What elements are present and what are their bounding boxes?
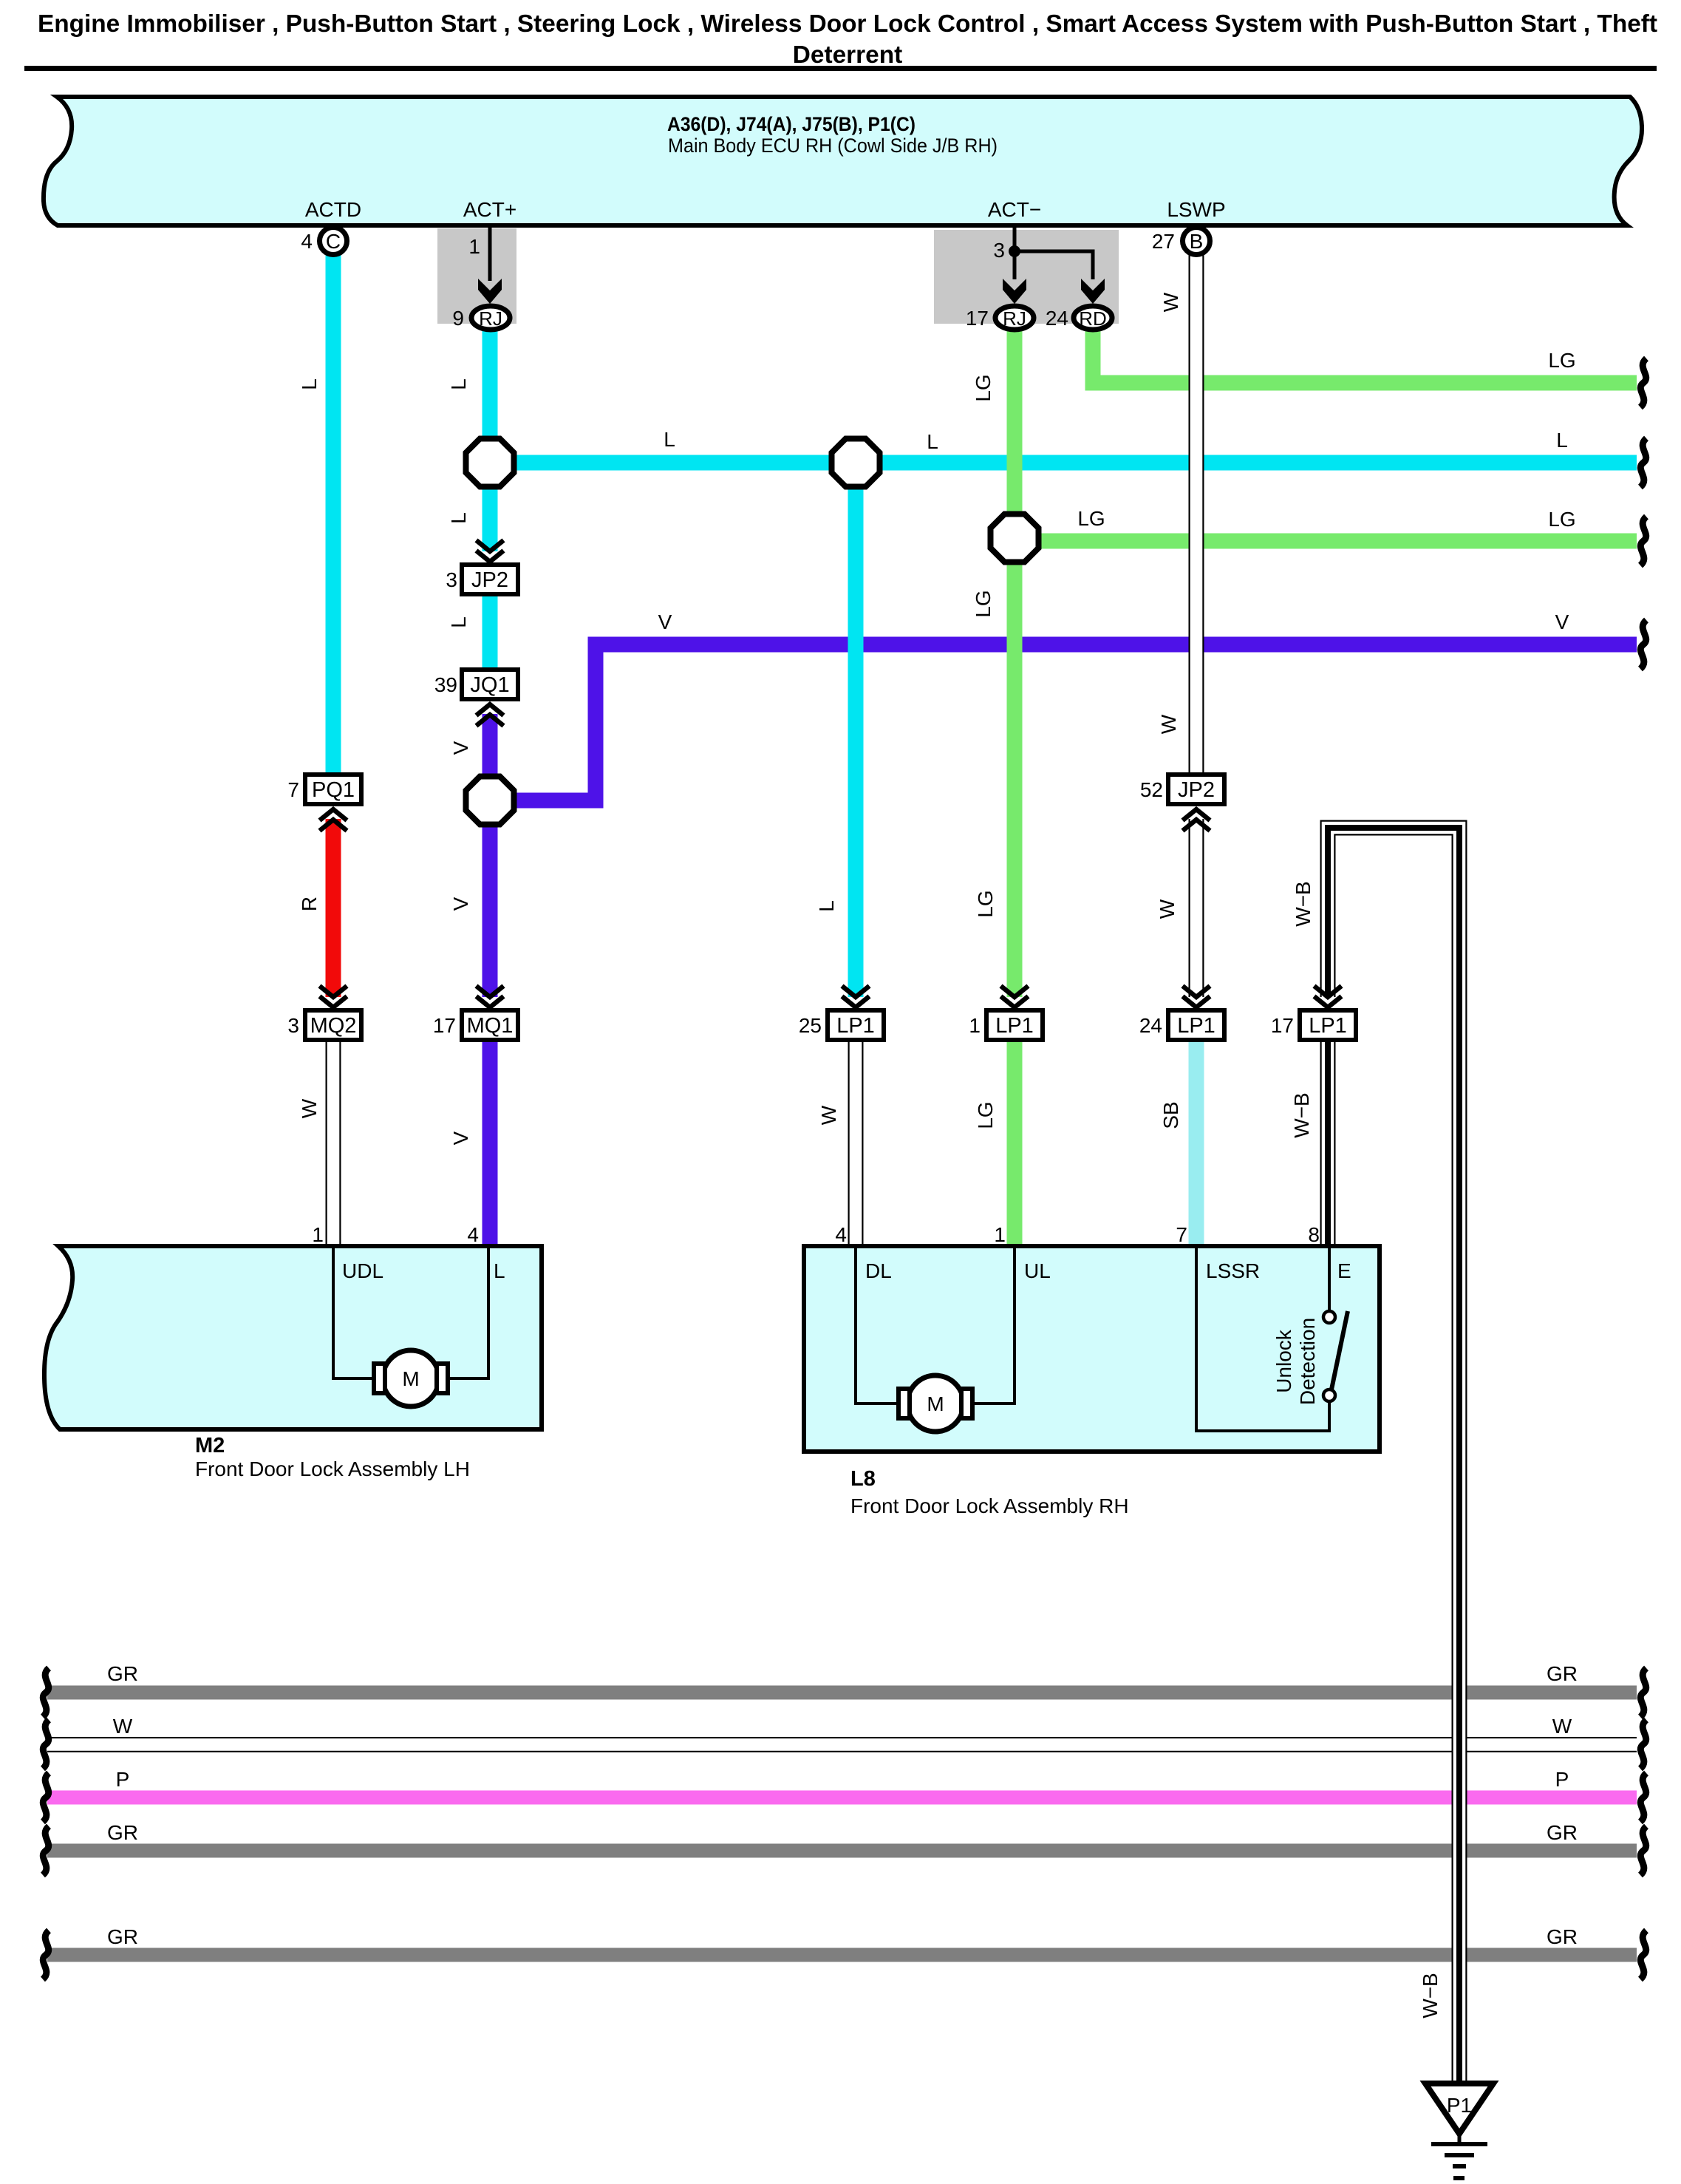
- ECU connector box A36 J74 J75 P1: [44, 97, 1642, 225]
- connector LP1 pin 17: [1271, 1010, 1356, 1040]
- svg-text:8: 8: [1308, 1223, 1320, 1246]
- svg-text:Unlock: Unlock: [1272, 1329, 1295, 1393]
- pin 4 connector C circle: [301, 228, 347, 255]
- break symbol left GR1: [43, 1668, 49, 1717]
- break symbol right W: [1640, 1720, 1646, 1769]
- wire W white vertical JP2-52 to LP1-24: [1189, 819, 1204, 997]
- connector LP1 pin 24: [1139, 1010, 1224, 1040]
- svg-text:W: W: [1552, 1715, 1572, 1738]
- wire LG vertical RJ17 to splice J3: [1007, 330, 1023, 541]
- svg-text:MQ1: MQ1: [467, 1014, 514, 1038]
- connector oval RD pin 24: [1046, 306, 1112, 330]
- svg-text:1: 1: [468, 235, 480, 258]
- svg-text:W: W: [1156, 899, 1179, 919]
- wire LG vertical splice J3 to LP1-1: [1007, 541, 1023, 997]
- svg-text:LG: LG: [1548, 349, 1575, 372]
- svg-text:V: V: [449, 897, 472, 911]
- svg-text:M2: M2: [195, 1434, 225, 1457]
- svg-text:W−B: W−B: [1290, 1092, 1313, 1137]
- svg-text:RJ: RJ: [1003, 307, 1026, 330]
- svg-text:1: 1: [994, 1223, 1006, 1246]
- svg-text:P1: P1: [1447, 2094, 1472, 2117]
- connector oval RJ pin 9: [452, 306, 510, 330]
- svg-text:LP1: LP1: [1177, 1014, 1215, 1038]
- splice J1 octagon: [466, 439, 514, 487]
- svg-text:L8: L8: [850, 1467, 876, 1491]
- title: [38, 10, 1657, 69]
- svg-text:ACTD: ACTD: [305, 198, 361, 221]
- M2 internal wiring: [333, 1248, 488, 1378]
- wire GR horizontal 2: [47, 1844, 1637, 1858]
- svg-text:P: P: [116, 1768, 130, 1791]
- wire L horizontal from splice J1 to right edge: [490, 455, 1637, 471]
- wire W-B hairpin from LP1-17 up over and down to ground: [1328, 828, 1459, 2083]
- junction connector PQ1 pin 7: [287, 775, 361, 804]
- unlock detection switch: [1272, 1248, 1348, 1405]
- wire L vertical splice J1 to JP2: [483, 463, 498, 551]
- svg-text:UL: UL: [1024, 1259, 1051, 1282]
- break symbol right L: [1640, 438, 1646, 487]
- inline connector chevron above LP1-1: [1001, 986, 1029, 1007]
- svg-text:1: 1: [312, 1223, 324, 1246]
- svg-text:24: 24: [1046, 307, 1068, 330]
- wire V vertical splice J4 to MQ1: [483, 800, 498, 997]
- svg-text:L: L: [494, 1259, 505, 1282]
- break symbol right GR2: [1640, 1826, 1646, 1875]
- L8 motor wiring: [856, 1248, 1015, 1404]
- wire L vertical JP2 to JQ1: [483, 594, 498, 670]
- svg-text:4: 4: [835, 1223, 847, 1246]
- break symbol left GR2: [43, 1826, 49, 1875]
- svg-text:UDL: UDL: [342, 1259, 383, 1282]
- svg-text:ACT+: ACT+: [463, 198, 516, 221]
- svg-text:LG: LG: [974, 890, 997, 917]
- M2 pin 4 L: [467, 1223, 505, 1282]
- svg-text:A36(D), J74(A), J75(B), P1(C): A36(D), J74(A), J75(B), P1(C): [667, 113, 915, 135]
- junction connector JP2 pin 52: [1140, 775, 1224, 804]
- inline connector chevron above MQ1: [477, 986, 504, 1007]
- break symbol right GR1: [1640, 1668, 1646, 1717]
- svg-text:W: W: [113, 1715, 133, 1738]
- svg-text:L: L: [927, 430, 938, 453]
- svg-text:JQ1: JQ1: [470, 673, 509, 697]
- inline connector chevron above LP1-24: [1183, 986, 1210, 1007]
- L8 pin 8 E: [1308, 1223, 1351, 1282]
- svg-text:GR: GR: [107, 1925, 138, 1948]
- wire W-B lower part over bottom wires: [1452, 1656, 1467, 2083]
- svg-text:L: L: [815, 900, 838, 912]
- svg-text:R: R: [298, 897, 321, 911]
- arrow from ECU pin 1 ACT+: [468, 228, 502, 304]
- svg-text:GR: GR: [1547, 1662, 1578, 1685]
- connector MQ2 pin 3: [287, 1010, 361, 1040]
- inline connector chevron above LP1-25: [842, 986, 870, 1007]
- svg-text:L: L: [447, 616, 470, 628]
- svg-text:Deterrent: Deterrent: [793, 41, 902, 69]
- svg-text:17: 17: [433, 1014, 456, 1037]
- svg-text:W−B: W−B: [1419, 1973, 1442, 2018]
- wire W horizontal: [47, 1737, 1637, 1752]
- M2 pin 1 UDL: [312, 1223, 383, 1282]
- wire LG from RD24 to right edge: [1093, 330, 1637, 383]
- wire V from splice J4 to right edge: [490, 644, 1637, 800]
- break symbol left W: [43, 1720, 49, 1769]
- wire W white vertical B27 to JP2-52: [1189, 254, 1204, 775]
- arrow to RJ17: [1003, 251, 1026, 304]
- svg-text:L: L: [447, 378, 470, 390]
- L8 pin 4 DL: [835, 1223, 891, 1282]
- break symbol right GR3: [1640, 1930, 1646, 1979]
- wire LG horizontal from splice J3 to right edge: [1015, 534, 1637, 549]
- svg-text:LP1: LP1: [836, 1014, 875, 1038]
- wire W-B vertical LP1-17 to L8 pin 8: [1320, 1039, 1336, 1248]
- svg-text:GR: GR: [1547, 1821, 1578, 1844]
- svg-text:LP1: LP1: [1309, 1014, 1347, 1038]
- ground P1: [1425, 2083, 1493, 2180]
- break symbol left GR3: [43, 1930, 49, 1979]
- svg-text:39: 39: [434, 673, 457, 696]
- svg-text:MQ2: MQ2: [310, 1014, 357, 1038]
- svg-text:4: 4: [467, 1223, 479, 1246]
- motor M in L8: [899, 1375, 972, 1432]
- wire P horizontal: [47, 1791, 1637, 1805]
- svg-text:27: 27: [1152, 230, 1175, 253]
- svg-text:W: W: [1157, 714, 1180, 734]
- svg-text:GR: GR: [1547, 1925, 1578, 1948]
- connector MQ1 pin 17: [433, 1010, 518, 1040]
- inline connector chevron below PQ1 pointing up: [320, 809, 347, 831]
- svg-text:L: L: [664, 428, 675, 451]
- svg-text:RD: RD: [1079, 307, 1107, 330]
- title rule: [24, 66, 1657, 71]
- wire R red vertical PQ1 to MQ2: [326, 819, 341, 997]
- wire L cyan vertical splice J2 to LP1-25: [848, 463, 864, 997]
- svg-text:3: 3: [446, 568, 457, 591]
- svg-text:L: L: [447, 512, 470, 524]
- svg-text:LG: LG: [972, 590, 995, 617]
- shield gray box at ACT-: [934, 230, 1119, 324]
- wire ACTD L cyan vertical: [326, 254, 341, 776]
- svg-text:LG: LG: [1548, 508, 1575, 531]
- wire V vertical MQ1 to M2 pin 4: [483, 1039, 498, 1248]
- svg-text:ACT−: ACT−: [988, 198, 1041, 221]
- svg-text:DL: DL: [865, 1259, 892, 1282]
- svg-text:W: W: [298, 1098, 321, 1118]
- svg-text:Detection: Detection: [1296, 1318, 1319, 1405]
- svg-text:Front Door Lock Assembly LH: Front Door Lock Assembly LH: [195, 1457, 470, 1480]
- svg-text:B: B: [1190, 230, 1204, 253]
- svg-text:P: P: [1555, 1768, 1569, 1791]
- svg-text:25: 25: [799, 1014, 822, 1037]
- L8 Front Door Lock Assembly RH box: [804, 1246, 1380, 1517]
- svg-text:LSSR: LSSR: [1206, 1259, 1260, 1282]
- splice J2 octagon: [832, 439, 880, 487]
- node ACT- junction dot and branch: [993, 228, 1094, 262]
- svg-text:V: V: [1555, 610, 1569, 633]
- junction connector JP2 pin 3: [446, 565, 518, 594]
- svg-text:V: V: [658, 610, 672, 633]
- connector LP1 pin 25: [799, 1010, 884, 1040]
- svg-text:17: 17: [1271, 1014, 1294, 1037]
- svg-text:E: E: [1337, 1259, 1351, 1282]
- wire SB vertical LP1-24 to L8 pin 7: [1189, 1039, 1204, 1248]
- svg-text:LG: LG: [1077, 507, 1105, 530]
- splice J4 octagon: [466, 777, 514, 825]
- svg-text:Front Door Lock Assembly RH: Front Door Lock Assembly RH: [850, 1494, 1129, 1517]
- splice J3 octagon: [991, 514, 1039, 562]
- svg-text:C: C: [326, 230, 341, 253]
- L8 pin 7 LSSR: [1176, 1223, 1260, 1282]
- break symbol right LG1: [1640, 358, 1646, 407]
- break symbol right V: [1640, 620, 1646, 669]
- connector LP1 pin 1: [969, 1010, 1043, 1040]
- inline connector chevron above MQ2: [320, 986, 347, 1007]
- svg-text:M: M: [927, 1392, 944, 1415]
- L8 pin 1 UL: [994, 1223, 1050, 1282]
- break symbol right P: [1640, 1773, 1646, 1822]
- svg-text:24: 24: [1139, 1014, 1162, 1037]
- svg-text:LP1: LP1: [995, 1014, 1034, 1038]
- svg-text:JP2: JP2: [471, 568, 508, 592]
- wire LG vertical LP1-1 to L8 pin 1: [1007, 1039, 1023, 1248]
- svg-text:LG: LG: [974, 1101, 997, 1129]
- pin 27 connector B circle: [1152, 228, 1210, 255]
- svg-text:L: L: [1556, 429, 1568, 452]
- M2 Front Door Lock Assembly LH box: [44, 1246, 542, 1480]
- svg-text:3: 3: [287, 1014, 299, 1037]
- svg-text:Engine Immobiliser , Push-Butt: Engine Immobiliser , Push-Button Start ,…: [38, 10, 1657, 38]
- svg-text:SB: SB: [1159, 1101, 1182, 1129]
- svg-text:GR: GR: [107, 1821, 138, 1844]
- svg-text:17: 17: [966, 307, 989, 330]
- connector oval RJ pin 17: [966, 306, 1034, 330]
- break symbol right LG2: [1640, 517, 1646, 565]
- svg-text:9: 9: [452, 307, 464, 330]
- svg-text:L: L: [298, 378, 321, 390]
- inline connector chevron above JP2-3: [477, 540, 504, 562]
- svg-text:3: 3: [993, 239, 1005, 262]
- svg-text:GR: GR: [107, 1662, 138, 1685]
- svg-text:52: 52: [1140, 778, 1163, 801]
- inline connector chevron below JP2-52 pointing up: [1183, 809, 1210, 831]
- svg-text:LSWP: LSWP: [1167, 198, 1225, 221]
- wire GR horizontal 3: [47, 1948, 1637, 1962]
- svg-text:RJ: RJ: [479, 307, 502, 330]
- svg-text:7: 7: [287, 778, 299, 801]
- break symbol left P: [43, 1773, 49, 1822]
- wire GR horizontal 1: [47, 1686, 1637, 1700]
- L8 LSSR internal wiring: [1196, 1248, 1329, 1431]
- junction connector JQ1 pin 39: [434, 670, 518, 699]
- svg-text:M: M: [402, 1367, 419, 1390]
- wire V vertical JQ1 to splice J4: [483, 714, 498, 800]
- svg-text:1: 1: [969, 1014, 981, 1037]
- svg-text:4: 4: [301, 230, 313, 253]
- wire W white vertical MQ2 to M2 pin 1: [326, 1039, 341, 1248]
- inline connector chevron below JQ1 pointing up: [477, 704, 504, 726]
- svg-text:PQ1: PQ1: [312, 778, 355, 802]
- shield gray box at ACT+: [437, 228, 516, 324]
- wire ACT+ L cyan vertical RJ to splice J1: [483, 330, 498, 463]
- wire W white vertical LP1-25 to L8 pin 4: [848, 1039, 864, 1248]
- svg-text:LG: LG: [972, 374, 995, 401]
- svg-text:7: 7: [1176, 1223, 1187, 1246]
- svg-text:Main Body ECU RH (Cowl Side J/: Main Body ECU RH (Cowl Side J/B RH): [668, 135, 998, 157]
- svg-text:V: V: [449, 741, 472, 755]
- svg-text:W: W: [817, 1105, 840, 1125]
- svg-text:W−B: W−B: [1292, 881, 1315, 926]
- svg-text:V: V: [449, 1131, 472, 1145]
- svg-text:W: W: [1159, 292, 1182, 312]
- svg-text:JP2: JP2: [1178, 778, 1215, 802]
- motor M in M2: [374, 1350, 448, 1406]
- arrow to RD24: [1081, 251, 1105, 304]
- inline connector chevron above LP1-17: [1315, 986, 1342, 1007]
